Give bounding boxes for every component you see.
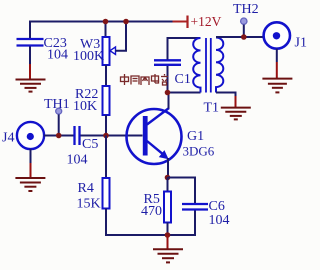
connector J1 <box>264 22 307 50</box>
wire transformer right top to J1 <box>216 36 264 38</box>
svg-text:T1: T1 <box>204 101 220 116</box>
ground bottom node <box>153 235 183 262</box>
svg-text:104: 104 <box>47 48 68 63</box>
wire J1 to ground <box>276 49 278 62</box>
wire W3 wiper to rail <box>116 22 127 51</box>
svg-text:15K: 15K <box>77 197 101 212</box>
junction dot rail-wiper <box>123 19 129 25</box>
junction dot TH2 node <box>241 34 247 40</box>
resistor R5 <box>141 192 171 223</box>
svg-text:100K: 100K <box>73 49 104 64</box>
svg-text:R4: R4 <box>78 181 94 196</box>
wire C23 to ground <box>29 47 31 65</box>
capacitor C23 <box>17 36 69 63</box>
resistor R4 <box>77 178 110 212</box>
svg-text:3DG6: 3DG6 <box>183 144 215 159</box>
junction dot bottom node <box>165 232 171 238</box>
svg-text:G1: G1 <box>187 129 204 144</box>
ground below T1 <box>221 96 251 119</box>
wire transformer right bottom to ground <box>216 93 236 98</box>
wire W3 to R22 <box>105 65 107 87</box>
ground below J1 <box>262 62 292 92</box>
wire emitter down <box>167 158 169 178</box>
svg-text:104: 104 <box>209 213 230 228</box>
capacitor C5 <box>67 126 99 168</box>
svg-text:470: 470 <box>141 204 162 219</box>
junction dot emitter node <box>165 175 171 181</box>
test point TH1 <box>44 97 70 136</box>
resistor R22 <box>73 86 110 115</box>
svg-text:TH1: TH1 <box>44 97 70 112</box>
ground below J4 <box>15 163 45 191</box>
wire base node to R4 <box>105 136 107 179</box>
wire collector up <box>168 93 170 109</box>
wire top rail <box>30 22 174 40</box>
connector J4 <box>2 122 44 149</box>
wire R4 to bottom node <box>106 209 168 236</box>
svg-text:TH2: TH2 <box>233 2 259 17</box>
wire transformer left bottom <box>168 92 201 94</box>
wire J4 to C5 <box>44 135 74 137</box>
svg-text:J1: J1 <box>295 36 307 51</box>
wire C6 to bottom node <box>168 211 196 236</box>
wire emitter node to R5 <box>167 178 169 192</box>
svg-text:C6: C6 <box>209 199 225 214</box>
wire C1 top to transformer <box>168 38 201 60</box>
junction dot collector node <box>165 90 171 96</box>
potentiometer W3 <box>73 37 116 65</box>
wire C5 to transistor base <box>81 135 143 137</box>
transformer T1 <box>193 38 223 116</box>
junction dot TH1 node <box>56 133 62 139</box>
label Chinese annotation 中周内电容 <box>121 74 169 85</box>
wire collector node to C1 branch <box>167 66 169 93</box>
wire J4 to ground <box>30 149 32 163</box>
svg-text:10K: 10K <box>73 99 97 114</box>
junction dot rail-W3 <box>103 19 109 25</box>
junction dot base node <box>103 133 109 139</box>
svg-text:C1: C1 <box>175 72 191 87</box>
svg-text:C5: C5 <box>82 137 98 152</box>
capacitor C1 <box>154 60 191 87</box>
svg-text:J4: J4 <box>2 131 14 146</box>
transistor G1 <box>127 108 215 164</box>
wire emitter node to C6 <box>168 178 196 204</box>
power +12V <box>173 14 222 29</box>
ground below C23 <box>16 64 46 92</box>
capacitor C6 <box>182 199 230 228</box>
svg-text:+12V: +12V <box>191 14 222 29</box>
svg-text:104: 104 <box>67 153 88 168</box>
wire R22 to base node <box>105 115 107 136</box>
wire rail to W3 <box>105 22 107 38</box>
wire R5 to bottom node <box>167 223 169 236</box>
test point TH2 <box>233 2 259 37</box>
